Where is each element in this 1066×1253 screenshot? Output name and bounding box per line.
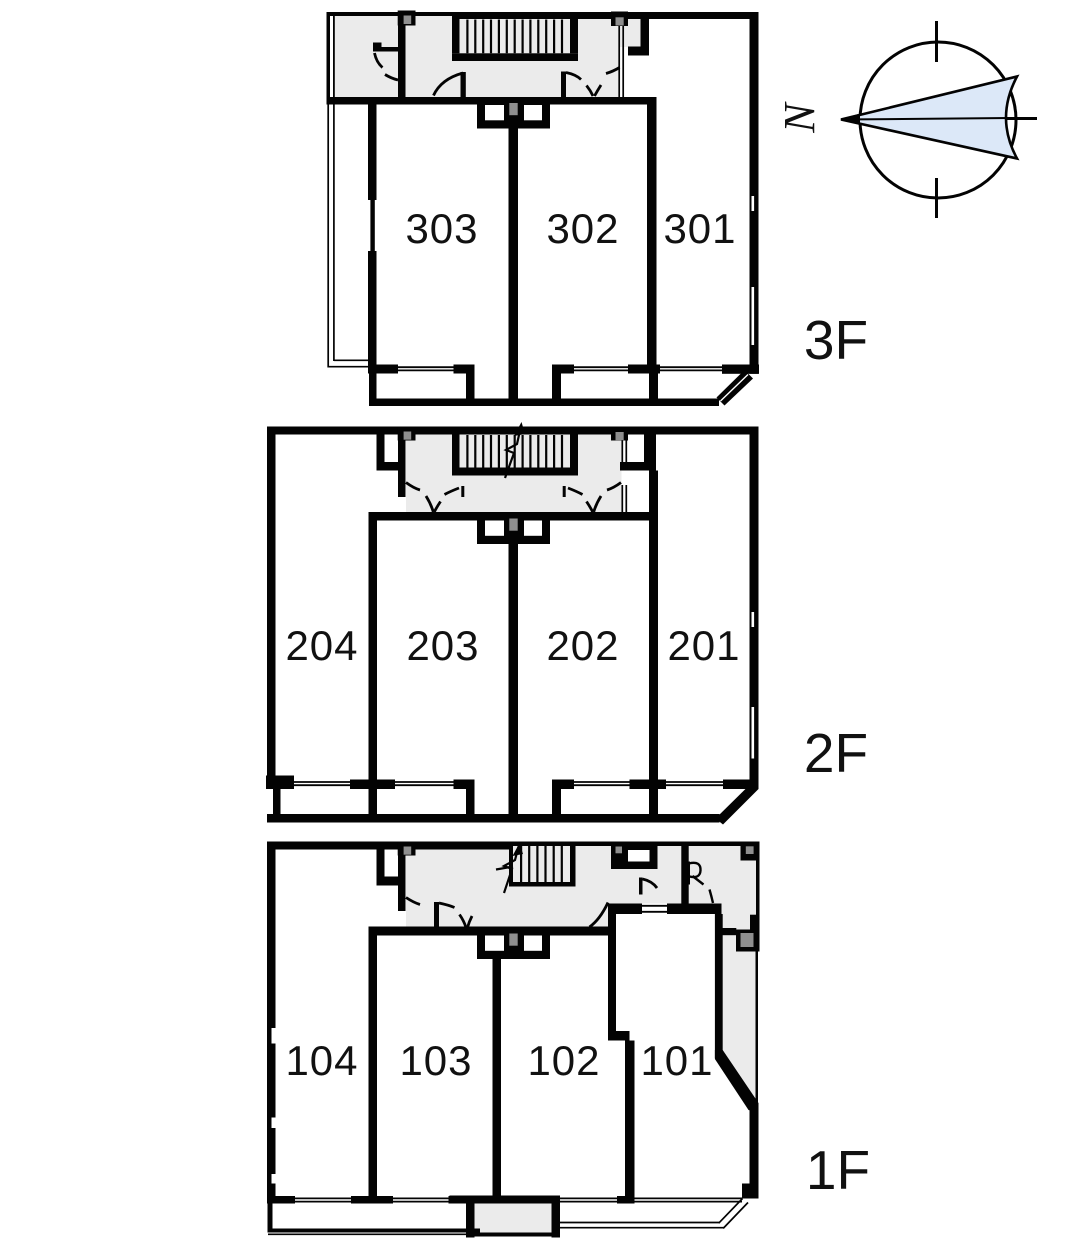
svg-text:1F: 1F	[806, 1139, 870, 1201]
svg-text:101: 101	[640, 1037, 713, 1084]
svg-text:203: 203	[406, 622, 479, 669]
svg-text:104: 104	[285, 1037, 358, 1084]
svg-text:N: N	[775, 101, 824, 134]
svg-text:3F: 3F	[804, 309, 868, 371]
svg-text:202: 202	[546, 622, 619, 669]
svg-text:301: 301	[663, 205, 736, 252]
svg-text:302: 302	[546, 205, 619, 252]
svg-text:2F: 2F	[804, 722, 868, 784]
svg-text:103: 103	[399, 1037, 472, 1084]
svg-text:201: 201	[667, 622, 740, 669]
svg-text:102: 102	[527, 1037, 600, 1084]
svg-text:204: 204	[285, 622, 358, 669]
svg-text:303: 303	[405, 205, 478, 252]
